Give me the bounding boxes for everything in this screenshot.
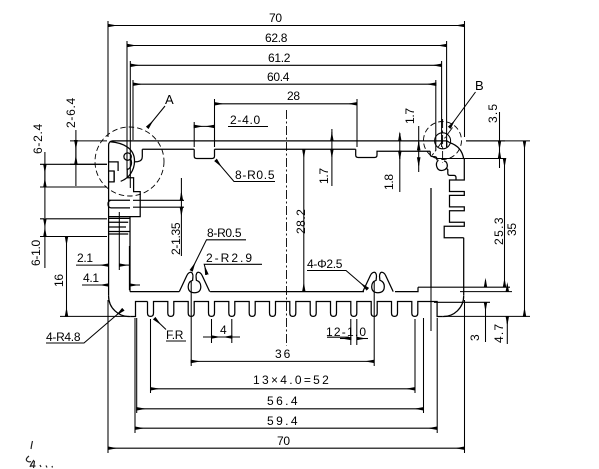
ceiling tab 2 [356,149,379,157]
dimension 4.1 [82,246,140,290]
right wall comb fins [444,159,464,238]
screw boss 1 (2-R2.9) [179,272,209,293]
svg-text:3.5: 3.5 [486,103,500,123]
svg-text:59.4: 59.4 [267,414,300,428]
dimension 2-1.35 [133,178,184,256]
ceiling tab 1 (2-4.0) [194,149,214,158]
svg-text:F.R: F.R [166,328,184,342]
dimension 1.8 [382,133,400,192]
dimension 13x4.0=52 [151,319,416,393]
label 8-R0.5 upper with leader [216,160,275,182]
label 4-phi2.5 with leader [307,257,368,289]
dimension 61.2 [130,51,441,188]
svg-text:70: 70 [269,11,282,25]
svg-text:2-1.35: 2-1.35 [169,222,183,255]
right ledge line [418,286,510,288]
svg-text:35: 35 [505,223,519,236]
dimension 6-2.4 left [31,123,107,218]
dimension 1.7 centre [317,129,332,186]
svg-text:25.3: 25.3 [492,216,506,245]
svg-text:70: 70 [277,434,290,448]
svg-text:4.1: 4.1 [83,271,99,285]
dimension 6-1.0 left [29,219,107,268]
dimension 16 left [52,237,129,317]
dimension 28.2 [294,149,308,291]
svg-text:1.8: 1.8 [382,174,396,190]
svg-text:2-6.4: 2-6.4 [64,97,78,128]
ceiling right step notch [430,151,437,160]
svg-text:60.4: 60.4 [267,70,290,84]
svg-text:3: 3 [468,334,482,341]
top-right corner arc R4.8 [450,143,464,159]
svg-text:8-R0.5: 8-R0.5 [235,168,275,182]
svg-text:56.4: 56.4 [267,394,300,408]
label B with leader [450,78,484,128]
svg-text:A: A [165,92,174,107]
dimension 28 [215,89,358,147]
svg-text:13×4.0=52: 13×4.0=52 [253,373,331,387]
right inner wall extension line [430,287,432,331]
bottom-left corner arc R4.8 [109,296,131,317]
label A with leader [148,92,175,128]
svg-text:2.1: 2.1 [77,251,93,265]
detail B centerline diagonal [432,128,453,156]
vertical centerline [286,110,288,346]
svg-text:28.2: 28.2 [294,209,308,234]
svg-text:4-R4.8: 4-R4.8 [46,330,81,344]
dimension 4 bottom [203,319,240,343]
detail B screw channel hook [436,141,456,180]
svg-text:8-R0.5: 8-R0.5 [207,226,242,240]
detail A screw channel big curl [109,142,143,217]
watermark squiggle bottom-left [26,441,52,468]
detail B centerline vertical [442,119,444,163]
detail A dashed circle [95,127,164,196]
dimension 56.4 [137,318,424,413]
dimension 59.4 [135,318,437,433]
dimension 60.4 [133,70,436,150]
detail B dashed circle [424,122,462,160]
svg-text:28: 28 [287,89,300,103]
dimension 4.7 lower right [460,285,512,345]
dimension 12-1.0 bottom [326,319,368,345]
svg-text:6-2.4: 6-2.4 [31,123,45,154]
label 8-R0.5 lower with leader [191,226,246,271]
dimension 2.1 [76,212,130,270]
bottom-right corner arc R4.8 [442,296,464,317]
svg-text:1.7: 1.7 [317,168,331,184]
svg-text:1.7: 1.7 [403,108,417,124]
svg-text:4.7: 4.7 [492,323,506,343]
dimension 36 [191,281,374,366]
right inner wall [430,188,432,287]
svg-text:B: B [475,78,483,93]
dimension 2-4.0 [194,113,268,147]
svg-text:4: 4 [220,323,227,337]
right outer wall lower [463,238,465,296]
svg-text:16: 16 [52,274,66,287]
dimension 1.7 right [403,108,419,172]
left outer wall [108,146,110,296]
label 2-R2.9 with leader [204,251,262,274]
profile top plate [113,141,450,151]
dimension 35 [444,141,530,317]
bottom fin band [130,302,442,317]
svg-text:62.8: 62.8 [265,31,288,45]
detail B screw hole circle [435,133,451,149]
dimension 2-6.4 left [64,97,107,186]
svg-text:6-1.0: 6-1.0 [29,240,43,266]
svg-text:36: 36 [275,347,292,361]
dimension 62.8 [127,31,447,170]
left wall serration block lines [108,171,130,292]
label F.R with leader [155,319,187,343]
dimension 25.3 [492,159,506,288]
dimension 70 bottom [108,300,465,453]
svg-text:2-4.0: 2-4.0 [230,113,261,127]
dimension 3.5 right [437,103,505,168]
dimension 70 top [108,11,465,137]
top-left corner arc R4.8 [109,141,113,146]
label 4-R4.8 with leader [46,310,123,345]
screw boss 2 (4-phi2.5) [363,272,393,293]
cavity floor [130,287,418,291]
svg-text:4-Φ2.5: 4-Φ2.5 [307,257,343,271]
svg-text:61.2: 61.2 [268,51,291,65]
svg-text:2-R2.9: 2-R2.9 [206,251,254,265]
dimension 3 lower right [434,280,490,342]
